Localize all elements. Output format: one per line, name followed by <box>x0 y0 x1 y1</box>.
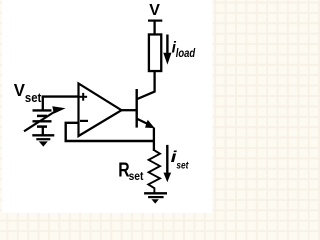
variable source arrow <box>24 111 57 132</box>
svg-text:set: set <box>25 91 42 105</box>
battery Vset plate short <box>37 115 47 118</box>
transistor Q1 emitter <box>137 119 148 124</box>
feedback wire - input to emitter node <box>66 123 154 141</box>
svg-text:set: set <box>176 159 188 171</box>
battery Vset plate short 2 <box>37 125 47 128</box>
current arrow i_load <box>166 35 168 56</box>
current arrow i_set <box>166 145 168 175</box>
svg-text:V: V <box>14 80 25 100</box>
wire battery to ground <box>42 127 44 135</box>
ground (Rset) <box>144 192 167 194</box>
ground (battery) <box>32 134 54 136</box>
wire emitter down to Rset <box>153 128 155 152</box>
wire V rail to resistor <box>153 21 155 35</box>
battery Vset plate long 2 <box>33 120 52 122</box>
wire down to battery <box>42 96 44 111</box>
svg-text:load: load <box>176 48 196 60</box>
transistor Q1 base bar <box>135 89 137 128</box>
node V (supply rail bar) <box>148 20 162 22</box>
svg-text:set: set <box>129 169 144 183</box>
op-amp U1 <box>79 84 122 137</box>
resistor Rset (zigzag) <box>148 151 160 193</box>
battery Vset plate long <box>33 109 52 111</box>
wire Vset to + input <box>42 95 78 97</box>
wire op-amp output to base <box>121 109 136 111</box>
resistor Rload (box) <box>149 34 161 71</box>
svg-text:V: V <box>149 2 160 19</box>
wire resistor bottom to collector <box>137 71 154 99</box>
op-amp + marking <box>79 96 87 98</box>
op-amp - marking <box>80 120 88 122</box>
white canvas <box>2 0 212 213</box>
